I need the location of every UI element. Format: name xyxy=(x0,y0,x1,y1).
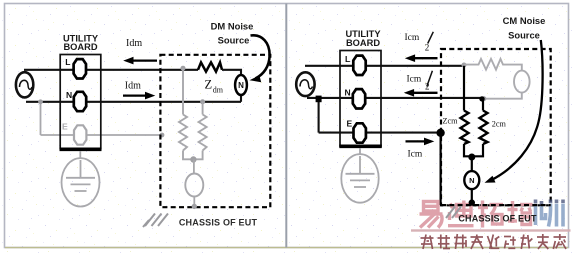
watermark big char 5 dark tips xyxy=(536,200,564,206)
wire to CM source xyxy=(471,157,473,171)
svg-text:CHASSIS OF EUT: CHASSIS OF EUT xyxy=(179,217,258,227)
wire L right xyxy=(305,65,464,67)
svg-text:E: E xyxy=(62,122,68,132)
board bottom thick edge xyxy=(60,148,102,152)
terminal E (gray) xyxy=(74,125,86,144)
svg-text:N: N xyxy=(469,176,474,185)
wire E to chassis bottom xyxy=(440,133,442,205)
node gray junction on L wire xyxy=(181,66,186,71)
gray faded DM resistor xyxy=(464,59,522,71)
wire gray source to chassis xyxy=(193,197,195,207)
AC source V1 xyxy=(16,72,33,97)
svg-text:Z: Z xyxy=(205,78,213,92)
node gray junction below resistors xyxy=(190,156,196,162)
svg-text:Source: Source xyxy=(508,29,540,40)
arrow Idm left xyxy=(131,59,157,61)
board bottom thick edge right xyxy=(339,145,382,149)
svg-text:E: E xyxy=(347,119,353,129)
resistor Zdm xyxy=(198,62,222,71)
watermark small text row xyxy=(421,234,567,249)
svg-text:Idm: Idm xyxy=(125,81,141,92)
node dot on chassis line right xyxy=(469,199,475,205)
chassis hatch xyxy=(143,214,168,228)
curved arrow DM source to N xyxy=(251,35,270,78)
fraction /2 mid xyxy=(427,71,433,87)
node gray dot at dashed box edge xyxy=(160,133,165,138)
arrow Icm E right xyxy=(406,140,427,142)
arrow Icm/2 top left xyxy=(413,57,438,59)
wire N tap down xyxy=(318,98,320,133)
wires Zcm join xyxy=(464,144,472,156)
resistor Zcm left xyxy=(461,111,469,145)
watermark big char 4 xyxy=(508,201,533,225)
wire E gray tap on N xyxy=(40,102,42,135)
watermark big char 5 xyxy=(536,204,564,227)
panel divider xyxy=(285,4,287,248)
gray faded DM bottom wire xyxy=(483,93,522,99)
dashed chassis box right xyxy=(441,49,551,205)
node gray junction on N wire xyxy=(200,99,205,104)
svg-text:2: 2 xyxy=(425,43,430,53)
chassis hatch right xyxy=(446,207,461,219)
node junction below Zcm xyxy=(468,154,475,161)
node gray dot on chassis line xyxy=(192,204,197,209)
svg-text:L: L xyxy=(345,54,350,64)
wire L down to Zcm xyxy=(463,66,465,111)
svg-text:DM Noise: DM Noise xyxy=(211,21,254,32)
terminal E right xyxy=(354,123,366,142)
resistor Zcm right xyxy=(480,111,488,145)
svg-text:dm: dm xyxy=(213,86,224,95)
svg-text:CHASSIS OF EUT: CHASSIS OF EUT xyxy=(458,214,537,224)
arrow Idm right xyxy=(123,94,147,96)
wire N source bottom to N wire xyxy=(240,95,242,102)
AC source V2 xyxy=(296,72,314,96)
svg-text:Zcm: Zcm xyxy=(443,117,459,126)
wire E right xyxy=(319,132,438,134)
wire CM source to chassis xyxy=(471,189,473,202)
arrow Icm/2 mid left xyxy=(412,92,438,94)
svg-text:BOARD: BOARD xyxy=(63,42,97,52)
node gray junction on N right xyxy=(482,96,487,101)
node junction N wire tap xyxy=(479,96,484,101)
wire E gray horizontal xyxy=(41,134,163,136)
svg-text:Icm: Icm xyxy=(408,149,423,159)
utility board box right xyxy=(340,51,381,147)
wire resistor to N source xyxy=(222,70,241,76)
wire L (phase) xyxy=(24,69,198,71)
CM noise source circle N xyxy=(464,171,479,189)
dashed chassis bottom right (redraw) xyxy=(441,204,551,206)
svg-text:Idm: Idm xyxy=(126,38,142,49)
wire board to earth right xyxy=(359,148,361,155)
svg-text:2: 2 xyxy=(425,82,430,92)
svg-text:Source: Source xyxy=(218,35,250,46)
terminal L xyxy=(74,59,86,78)
svg-text:N: N xyxy=(238,81,244,90)
svg-text:N: N xyxy=(345,87,351,97)
svg-text:Icm: Icm xyxy=(405,33,420,43)
node square junction on N xyxy=(316,96,322,103)
wire N down to Zcm xyxy=(482,98,484,111)
watermark underline xyxy=(411,229,571,231)
svg-text:N: N xyxy=(66,90,72,100)
watermark big char 1 xyxy=(420,202,443,228)
terminal N xyxy=(74,92,86,111)
node E wire chassis dot xyxy=(436,129,444,137)
terminal N right xyxy=(353,89,365,108)
frame bottom accent xyxy=(5,247,568,249)
gray noise source circle xyxy=(185,174,203,197)
svg-text:BOARD: BOARD xyxy=(346,38,380,48)
node gray junction on L right xyxy=(462,63,467,68)
gray faded DM source circle xyxy=(514,71,530,93)
svg-text:L: L xyxy=(65,57,70,67)
watermark big char 3 xyxy=(478,201,503,228)
svg-text:2cm: 2cm xyxy=(492,120,507,129)
svg-text:CM Noise: CM Noise xyxy=(503,15,546,26)
DM noise source circle N xyxy=(235,75,247,95)
earth ground symbol right xyxy=(341,154,378,203)
gray parasitic resistor left xyxy=(179,68,193,159)
watermark big char 2 xyxy=(448,201,474,226)
wire N right xyxy=(307,97,483,99)
node gray tap on N wire xyxy=(38,99,43,104)
earth ground symbol xyxy=(62,158,100,206)
wire N (neutral) xyxy=(26,101,241,103)
utility board box xyxy=(60,55,101,149)
gray parasitic resistor right xyxy=(193,102,206,160)
svg-text:Icm: Icm xyxy=(407,74,422,84)
dashed chassis box xyxy=(160,55,270,207)
terminal L right xyxy=(353,56,365,75)
fraction /2 top xyxy=(428,32,434,44)
wire to gray source xyxy=(193,160,195,174)
wire board to earth xyxy=(79,151,81,159)
curved arrow CM source to N xyxy=(491,40,543,180)
